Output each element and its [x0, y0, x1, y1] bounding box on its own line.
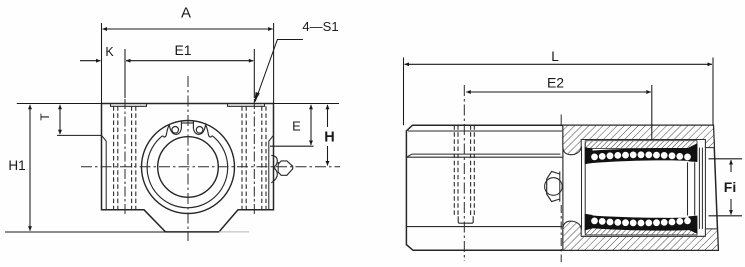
svg-text:4—S1: 4—S1 — [302, 19, 338, 34]
chamfer line top — [408, 130, 562, 132]
circlip hole right — [196, 127, 203, 134]
Fi ext top — [709, 158, 743, 160]
vertical centerline — [187, 76, 189, 241]
bearing shell top hatch — [585, 141, 697, 149]
right end washer lines — [698, 148, 700, 229]
dim K outside arrow — [80, 60, 101, 62]
dim E — [310, 105, 312, 145]
dim H — [327, 105, 329, 127]
svg-text:E: E — [292, 119, 301, 134]
left side inner edge — [102, 135, 107, 210]
section plane tick above — [560, 115, 562, 126]
ext line L right — [712, 58, 714, 126]
ext line E1 left / E1 right — [124, 49, 126, 98]
hole centerline left — [124, 99, 126, 216]
housing top hatch band — [563, 125, 715, 154]
housing bottom hatch band — [563, 221, 718, 250]
svg-text:E2: E2 — [547, 75, 564, 91]
svg-text:L: L — [551, 49, 559, 64]
block body outline — [102, 104, 274, 232]
ext line E bottom — [270, 145, 314, 147]
ext line A left — [101, 23, 103, 104]
hole bottom — [458, 216, 473, 223]
svg-text:T: T — [38, 113, 52, 121]
section cut line — [562, 125, 564, 250]
bottom ball row retainer — [585, 214, 698, 234]
circlip left ear — [163, 125, 182, 137]
leader 4-S1 — [255, 40, 303, 102]
svg-text:H1: H1 — [8, 158, 25, 173]
ext line E2 right — [651, 85, 653, 140]
tapped hole right (hidden lines) — [242, 106, 266, 210]
grease nipple neck line — [277, 162, 279, 173]
grease nipple head — [278, 161, 293, 175]
outer counterbore circle — [142, 121, 235, 214]
circlip right ear — [193, 125, 212, 137]
faded base line continuation — [219, 231, 249, 233]
grease nipple front view — [547, 171, 560, 201]
top ball row retainer — [585, 143, 698, 164]
inner sleeve verticals — [687, 162, 689, 215]
grease nipple flange — [271, 155, 277, 182]
barrel silhouette lines — [406, 154, 563, 157]
dim E2 — [466, 91, 651, 93]
ext line top (H1/T) — [17, 103, 102, 105]
svg-text:A: A — [181, 5, 191, 22]
dim T — [59, 105, 61, 134]
nipple mounting face — [559, 171, 561, 201]
circlip hole left — [172, 127, 179, 134]
top spot-face seat right — [228, 104, 265, 107]
dim E1 — [126, 60, 253, 62]
top spot-face seat left — [111, 104, 147, 107]
dim A — [103, 28, 273, 30]
circlip inner edge arc — [147, 136, 228, 208]
dim Fi — [730, 160, 732, 172]
left washer lines — [581, 146, 583, 229]
nipple centerline — [560, 205, 562, 262]
hole centerline right — [253, 99, 255, 216]
svg-text:E1: E1 — [174, 42, 191, 58]
tapped hole left (hidden lines) — [114, 106, 136, 210]
dim L — [405, 63, 713, 65]
ext line top right (E/H) — [274, 103, 340, 105]
ext line bottom H1 — [5, 231, 166, 233]
circlip gap bridge — [181, 122, 193, 124]
block outline — [406, 125, 718, 250]
circlip gap verticals — [181, 120, 193, 128]
dim H1 — [29, 105, 31, 231]
Fi ext bottom — [709, 215, 743, 217]
ext line L left — [403, 58, 405, 126]
svg-text:H: H — [324, 130, 334, 146]
tapped hole side (hidden) — [454, 125, 474, 215]
bore circle — [158, 137, 219, 198]
hole centerline — [463, 85, 465, 261]
bearing shell bottom hatch — [585, 228, 697, 235]
ext line T bottom — [57, 134, 102, 136]
horizontal centerline — [81, 166, 340, 168]
ext line A right — [273, 23, 275, 104]
svg-text:K: K — [105, 45, 114, 59]
right side inner edge — [269, 135, 274, 210]
foot line — [406, 226, 562, 228]
svg-text:Fi: Fi — [724, 179, 736, 195]
